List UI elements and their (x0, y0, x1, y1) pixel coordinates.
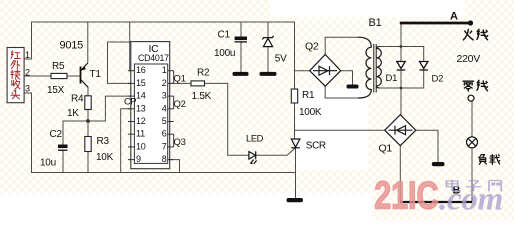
wire Q1 right vertex to ground (416, 130, 438, 162)
svg-text:8: 8 (162, 154, 167, 164)
svg-text:7: 7 (162, 141, 167, 151)
wire zener to ground (267, 47, 269, 72)
label 负载 load (479, 155, 500, 165)
IC output bracket Q3 (173, 134, 175, 147)
IC inner pin box (134, 64, 167, 163)
wire D2 branch vertical (423, 47, 425, 62)
resistor R4 (85, 96, 91, 110)
wire transformer secondary bottom to D2 (381, 87, 424, 89)
IC output bracket Q2 (173, 96, 175, 109)
svg-text:.com: .com (439, 181, 503, 217)
svg-text:Q2: Q2 (174, 99, 186, 110)
wire load lamp to neutral terminal (471, 101, 473, 137)
svg-text:10K: 10K (96, 152, 114, 163)
svg-text:220V: 220V (457, 53, 481, 65)
svg-text:Q1: Q1 (379, 143, 393, 155)
wire IC pin13 to bottom rail (121, 109, 135, 173)
wire load lamp bottom to node B line (471, 148, 473, 201)
svg-text:B1: B1 (369, 17, 382, 29)
svg-text:6: 6 (162, 129, 167, 139)
load lamp symbol (467, 137, 478, 148)
svg-text:1K: 1K (67, 108, 79, 119)
svg-text:5: 5 (162, 116, 167, 126)
IR receiver red label 红外接收头 (11, 51, 20, 99)
wire R3 to bottom rail (87, 152, 89, 173)
wire IC Q1 output to R2 (170, 82, 191, 84)
wire secondary bottom down to Q1 top vertex (400, 88, 402, 115)
wire top rail to C1 (240, 22, 242, 37)
wire LED cathode to SCR gate (256, 148, 296, 156)
svg-text:13: 13 (136, 103, 146, 113)
IC pin ticks left (128, 71, 134, 160)
resistor R5 (51, 73, 67, 78)
wire net to IC pin15 (108, 42, 135, 83)
resistor R3 (85, 137, 91, 152)
wire receiver pin1 to top rail (24, 22, 32, 59)
svg-text:16: 16 (136, 65, 146, 75)
triac Q1 diamond (385, 115, 416, 146)
svg-text:14: 14 (136, 91, 146, 101)
IC left pin numbers (136, 65, 146, 164)
svg-text:100u: 100u (214, 48, 235, 59)
svg-text:10u: 10u (40, 158, 56, 169)
IC output bracket Q1 (173, 71, 175, 84)
zener diode 5V (262, 36, 273, 47)
svg-text:12: 12 (136, 116, 146, 126)
capacitor C1 electrolytic (235, 37, 247, 41)
svg-text:CP: CP (124, 97, 136, 107)
svg-text:2: 2 (162, 78, 167, 88)
neutral terminal circle (468, 95, 474, 101)
junction node CP (86, 119, 90, 123)
thyristor SCR (291, 139, 300, 148)
svg-text:2: 2 (25, 67, 30, 77)
svg-text:1.5K: 1.5K (192, 91, 212, 102)
wire Q1 bottom vertex to node B (399, 146, 401, 202)
label 火线 live wire (463, 29, 487, 40)
wire Q2 right vertex to ground (341, 71, 353, 85)
svg-text:R5: R5 (52, 61, 65, 72)
wire Q2 top vertex to transformer primary top (325, 37, 358, 54)
svg-text:Q3: Q3 (174, 137, 186, 148)
svg-text:1: 1 (25, 50, 30, 60)
svg-text:D2: D2 (432, 74, 444, 85)
svg-text:4: 4 (162, 103, 167, 113)
svg-text:Q1: Q1 (174, 74, 186, 85)
watermark 电子网 (446, 180, 501, 192)
svg-text:9: 9 (136, 154, 141, 164)
wire Q2 bottom vertex to transformer primary bottom (324, 86, 326, 99)
ground at Q2 right vertex (347, 85, 359, 89)
wire junction to R3 (87, 121, 89, 137)
svg-text:15: 15 (136, 78, 146, 88)
diode D1 (397, 62, 405, 71)
wire node A line down to secondary top (400, 23, 402, 47)
IR receiver box (7, 48, 24, 103)
svg-text:9015: 9015 (60, 40, 84, 52)
svg-text:15X: 15X (47, 85, 65, 96)
junction dot secondary bottom (400, 87, 403, 90)
svg-text:Q2: Q2 (305, 40, 319, 52)
svg-text:100K: 100K (299, 107, 322, 118)
IC pin ticks right (168, 71, 174, 160)
wire R4 to node CP junction (87, 110, 89, 122)
wire receiver pin3 to bottom rail (24, 93, 32, 173)
svg-text:T1: T1 (90, 69, 102, 80)
diode D2 (420, 62, 428, 71)
wire bottom common rail (32, 172, 296, 174)
svg-text:11: 11 (136, 129, 145, 139)
wire T1 collector to R4 (87, 87, 89, 96)
wire top rail to IC pin16 (130, 22, 135, 71)
ground under zener (260, 72, 277, 76)
wire junction to IC pin14 CP (88, 96, 134, 121)
node A bold line (400, 22, 470, 25)
optocoupler Q2 diamond (310, 55, 341, 87)
wire R1 to SCR anode node (294, 103, 296, 139)
node B bold line (400, 201, 472, 203)
svg-text:C1: C1 (218, 30, 231, 41)
wire R2 to LED (205, 83, 249, 155)
op IC U1 CD4017 outer box (131, 42, 170, 169)
wire top supply rail (32, 21, 295, 23)
junction dot secondary top (400, 45, 403, 48)
svg-text:LED: LED (246, 133, 264, 144)
svg-text:A: A (450, 11, 458, 23)
wire IC pin8 to bottom rail (170, 160, 180, 173)
wire top rail right end down to R1 (294, 22, 296, 89)
svg-text:D1: D1 (386, 73, 398, 84)
wire C1 to ground (240, 42, 242, 72)
svg-text:R2: R2 (197, 68, 210, 79)
ground under C1 (233, 72, 249, 76)
svg-text:C2: C2 (50, 129, 63, 140)
svg-text:10: 10 (136, 141, 146, 151)
svg-text:SCR: SCR (306, 140, 326, 151)
transformer B1 (358, 37, 381, 98)
resistor R2 (191, 81, 205, 86)
wire D1 branch vertical (400, 47, 402, 62)
svg-text:R4: R4 (71, 94, 84, 105)
ground under SCR (287, 198, 304, 202)
capacitor C2 electrolytic (58, 145, 68, 149)
wire top rail to zener (267, 22, 269, 38)
IC right pin numbers (162, 65, 167, 164)
wire node to Q2 left vertex (295, 70, 310, 72)
LED (249, 151, 257, 163)
wire receiver pin2 to R5 (24, 75, 51, 77)
svg-text:1: 1 (162, 65, 167, 75)
ground at Q1 right vertex (432, 162, 445, 166)
svg-text:21IC: 21IC (374, 175, 438, 217)
resistor R1 (291, 89, 297, 103)
label 零线 neutral wire (463, 80, 488, 91)
svg-text:3: 3 (162, 91, 167, 101)
wire junction to C2 (63, 121, 88, 145)
wire R5 to T1 base (67, 75, 81, 77)
wire C2 to bottom rail (62, 150, 64, 172)
svg-text:R1: R1 (302, 90, 315, 101)
svg-text:R3: R3 (97, 136, 110, 147)
transistor T1 9015 (81, 63, 89, 87)
wire SCR cathode to ground (295, 148, 297, 198)
svg-text:CD4017: CD4017 (138, 53, 169, 63)
wire transformer secondary top to D2 (381, 46, 424, 48)
wire SCR node to Q1 left vertex (295, 129, 385, 131)
svg-text:3: 3 (25, 83, 30, 93)
svg-text:5V: 5V (275, 53, 287, 64)
wire T1 emitter to top rail (87, 22, 89, 63)
